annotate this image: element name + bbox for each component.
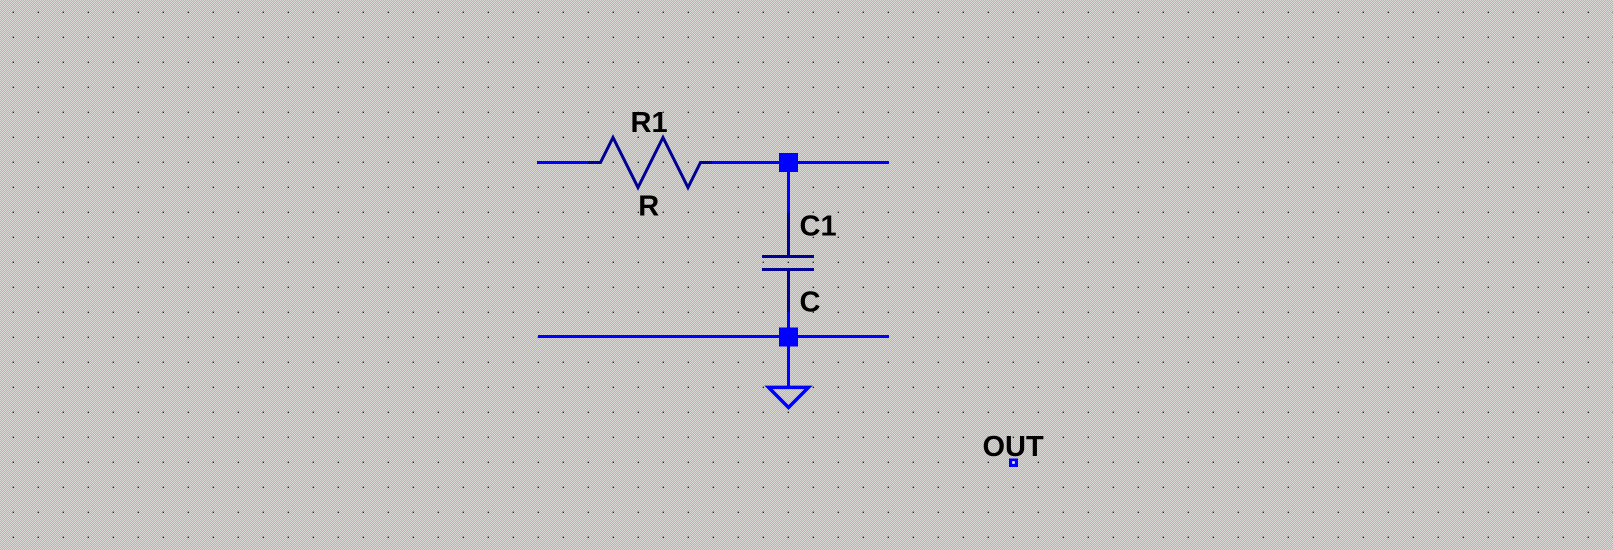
svg-text:R: R xyxy=(638,191,659,223)
wire vertical node A to capacitor xyxy=(787,163,790,214)
wire vertical capacitor to node B xyxy=(787,312,790,337)
junction node B (bottom) xyxy=(779,328,798,347)
wire top-left segment xyxy=(537,161,590,164)
wire bottom segment xyxy=(538,335,889,338)
wire top-right segment xyxy=(788,161,889,164)
wire vertical node B to ground xyxy=(787,337,790,387)
resistor R1 xyxy=(588,138,712,188)
svg-text:C1: C1 xyxy=(800,210,837,242)
wire top-middle segment (resistor to node A) xyxy=(710,161,788,164)
junction node A (top) xyxy=(779,153,798,172)
ground xyxy=(769,387,809,407)
svg-text:R1: R1 xyxy=(631,107,668,139)
svg-text:OUT: OUT xyxy=(983,431,1045,463)
svg-text:C: C xyxy=(800,287,821,319)
pin OUT xyxy=(1009,459,1018,468)
capacitor C1 xyxy=(762,213,814,312)
